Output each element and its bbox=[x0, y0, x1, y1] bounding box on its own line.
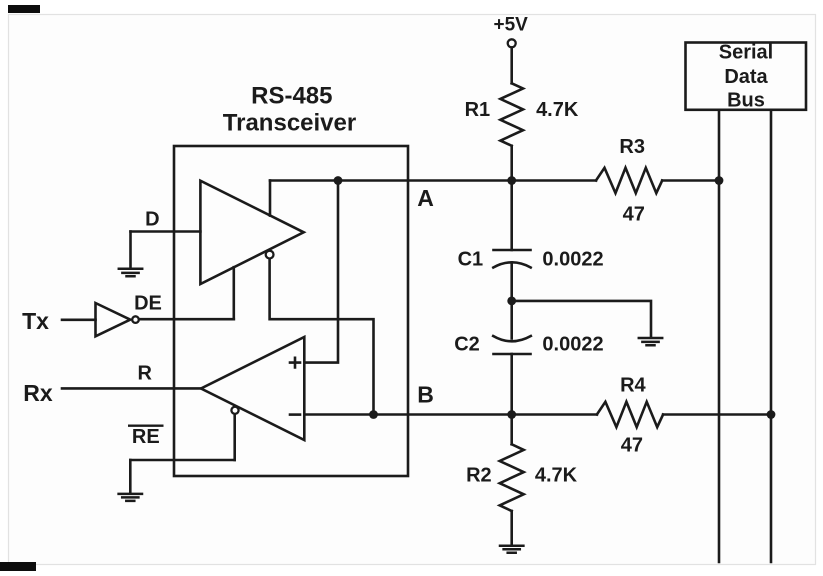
minus input marker bbox=[290, 413, 300, 416]
resistor R1 4.7K bbox=[500, 83, 523, 146]
svg-text:RS-485: RS-485 bbox=[251, 82, 332, 109]
svg-text:Serial: Serial bbox=[719, 42, 773, 64]
svg-text:RE: RE bbox=[132, 426, 160, 448]
+5V terminal circle bbox=[508, 39, 516, 47]
scan artifact bar top-left bbox=[8, 5, 40, 13]
svg-text:C1: C1 bbox=[458, 248, 484, 270]
svg-text:Bus: Bus bbox=[727, 90, 765, 112]
svg-text:Tx: Tx bbox=[22, 308, 49, 334]
wire node B horizontal bbox=[304, 413, 597, 416]
wire DE bbox=[139, 318, 234, 321]
receiver enable bubble bbox=[231, 407, 238, 414]
svg-text:R3: R3 bbox=[619, 136, 645, 158]
capacitor C1 curved plate bbox=[493, 262, 530, 267]
scan artifact bar bottom-left bbox=[0, 562, 36, 571]
driver inverting bubble bbox=[266, 251, 274, 259]
wire RE to ground bbox=[129, 460, 132, 493]
wire driver output tap to node A bbox=[269, 181, 272, 216]
ground mid bbox=[639, 338, 662, 345]
junction node B-bubble bbox=[369, 410, 378, 419]
wire D input bbox=[131, 230, 201, 233]
bus line 1 bbox=[718, 111, 721, 562]
transceiver box U1 bbox=[174, 146, 408, 476]
svg-text:+5V: +5V bbox=[494, 15, 529, 36]
ground RE bbox=[119, 494, 142, 501]
wire +5V to R1 bbox=[510, 48, 513, 84]
svg-text:B: B bbox=[417, 382, 434, 408]
ground D bbox=[119, 269, 142, 277]
serial data bus box bbox=[686, 43, 807, 110]
junction node A-bus bbox=[715, 176, 724, 185]
receiver op-amp bbox=[201, 337, 304, 440]
svg-text:R1: R1 bbox=[465, 99, 491, 121]
svg-text:4.7K: 4.7K bbox=[535, 464, 578, 486]
svg-text:4.7K: 4.7K bbox=[536, 99, 579, 121]
svg-text:A: A bbox=[417, 185, 434, 211]
wire R4 to bus bbox=[663, 413, 771, 416]
capacitor C2 flat plate bbox=[494, 353, 531, 356]
capacitor C2 curved plate bbox=[493, 336, 531, 341]
wire D to ground bbox=[129, 232, 132, 269]
junction node B-bus bbox=[767, 410, 776, 419]
junction node A-feedback bbox=[334, 176, 343, 185]
capacitor C1 wire top bbox=[510, 181, 513, 251]
junction mid caps bbox=[507, 297, 516, 306]
svg-text:C2: C2 bbox=[454, 333, 480, 355]
resistor R2 4.7K bbox=[500, 444, 524, 511]
wire R2 to ground bbox=[510, 511, 513, 545]
wire C1 to mid node bbox=[510, 263, 513, 301]
svg-text:R: R bbox=[137, 363, 152, 385]
resistor R3 47 bbox=[596, 168, 662, 193]
wire Rx input R bbox=[62, 387, 201, 390]
wire RE bubble vertical bbox=[233, 416, 236, 460]
wire DE enable vertical bbox=[233, 267, 236, 319]
svg-text:R4: R4 bbox=[620, 375, 646, 397]
svg-text:47: 47 bbox=[623, 204, 645, 226]
svg-text:R2: R2 bbox=[466, 464, 492, 486]
svg-text:Data: Data bbox=[724, 66, 768, 88]
capacitor C1 flat plate bbox=[494, 249, 531, 252]
svg-text:0.0022: 0.0022 bbox=[542, 248, 603, 270]
wire C2 to node B bbox=[510, 354, 513, 415]
svg-text:Rx: Rx bbox=[23, 380, 53, 406]
svg-text:DE: DE bbox=[134, 293, 162, 315]
junction node A-R1 bbox=[507, 176, 516, 185]
Tx inverter gate bbox=[96, 303, 131, 336]
svg-text:0.0022: 0.0022 bbox=[542, 333, 603, 355]
plus input marker bbox=[290, 358, 300, 368]
svg-text:D: D bbox=[145, 209, 159, 231]
wire mid node to ground bbox=[512, 301, 651, 337]
wire R3 to bus bbox=[662, 179, 719, 182]
wire A feedback to plus input bbox=[304, 181, 338, 363]
wire R1 to node A bbox=[510, 146, 513, 181]
svg-text:47: 47 bbox=[621, 435, 643, 457]
resistor R4 47 bbox=[597, 402, 663, 427]
driver buffer amplifier bbox=[200, 181, 303, 284]
wire Tx input bbox=[62, 318, 96, 321]
Tx inverter bubble bbox=[132, 316, 139, 323]
junction node B-R2 bbox=[507, 410, 516, 419]
wire node A horizontal bbox=[270, 179, 596, 182]
overline RE bbox=[128, 425, 164, 427]
wire node B to R2 bbox=[510, 415, 513, 445]
wire driver bubble to node B bbox=[270, 259, 374, 415]
wire mid node to C2 bbox=[510, 301, 513, 339]
bus line 2 bbox=[770, 111, 773, 562]
wire RE horizontal bbox=[130, 459, 234, 462]
ground R2 bbox=[500, 546, 523, 553]
svg-text:Transceiver: Transceiver bbox=[223, 110, 356, 137]
